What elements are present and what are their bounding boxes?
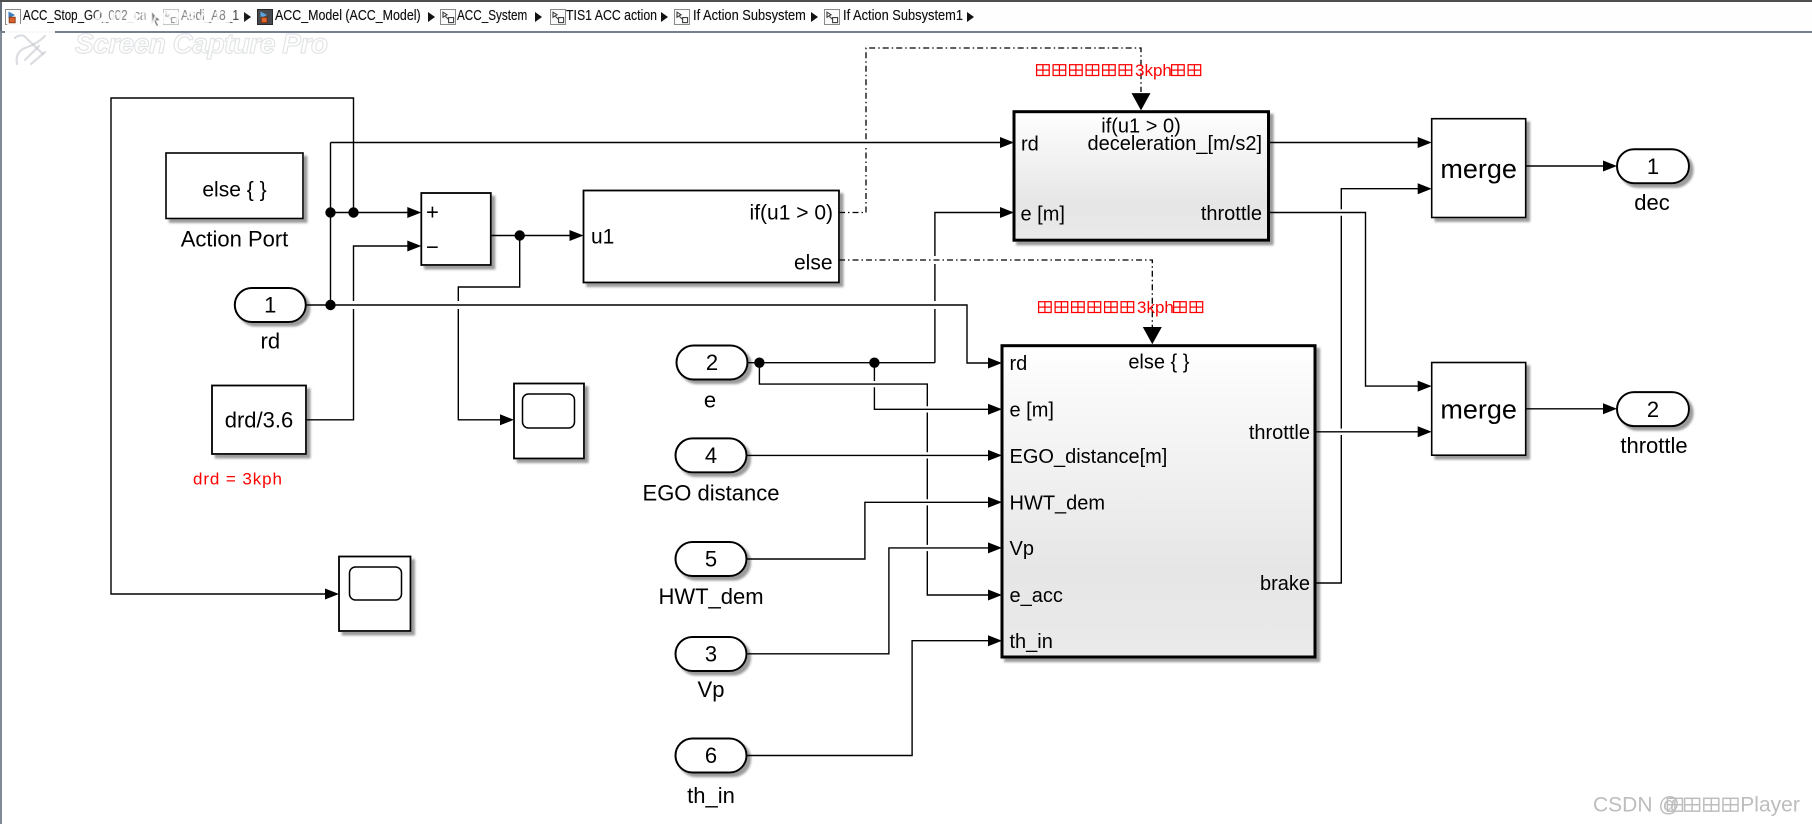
svg-text:drd/3.6: drd/3.6 [225, 408, 294, 433]
wire rd feedback loop to scope2 [111, 98, 354, 594]
svg-text:th_in: th_in [687, 783, 735, 808]
inport 6 th_in [676, 739, 747, 809]
svg-text:6: 6 [705, 743, 717, 768]
inport 5 HWT_dem [658, 542, 763, 609]
big arrowhead into block1 top [1132, 93, 1151, 110]
svg-text:CSDN @: CSDN @ [1593, 793, 1680, 816]
wire e from inport2 [748, 362, 935, 364]
svg-text:5: 5 [705, 547, 717, 572]
junction dots [325, 300, 335, 310]
dashdot else action line to block2 [839, 260, 1152, 327]
wire e branch to block2 e input [874, 363, 990, 410]
svg-text:EGO_distance[m]: EGO_distance[m] [1010, 446, 1168, 468]
svg-text:2: 2 [1647, 397, 1659, 422]
svg-text:brake: brake [1260, 573, 1310, 595]
svg-text:th_in: th_in [1010, 631, 1053, 653]
if block U1 [584, 191, 840, 283]
sum block [421, 193, 491, 265]
svg-text:rd: rd [1010, 353, 1028, 375]
svg-text:HWT_dem: HWT_dem [1010, 492, 1106, 514]
wire block2 brake output to merge1 lower input [1315, 189, 1419, 583]
svg-text:Player: Player [1740, 793, 1800, 816]
svg-text:e_acc: e_acc [1010, 585, 1063, 607]
svg-text:3kph: 3kph [1135, 61, 1172, 80]
svg-text:throttle: throttle [1249, 422, 1310, 444]
svg-text:1: 1 [1647, 154, 1659, 179]
csdn watermark bottom right [1593, 793, 1800, 816]
svg-text:−: − [426, 235, 439, 260]
svg-text:3: 3 [705, 642, 717, 667]
inport 4 EGO distance [643, 438, 780, 505]
gain block drd/3.6 [212, 386, 306, 455]
svg-text:Vp: Vp [1010, 538, 1034, 560]
scope block 1 [514, 384, 584, 459]
svg-text:3kph: 3kph [1137, 298, 1174, 317]
merge block M2 [1432, 363, 1526, 456]
svg-text:if(u1 > 0): if(u1 > 0) [750, 202, 833, 225]
red note cjk above block2 [1039, 298, 1203, 317]
svg-text:EGO distance: EGO distance [643, 480, 780, 505]
inport 2 e [677, 346, 748, 413]
svg-text:else { }: else { } [1128, 352, 1189, 374]
svg-text:throttle: throttle [1201, 203, 1262, 225]
svg-text:e [m]: e [m] [1021, 204, 1065, 226]
wire merge1 output to outport dec [1526, 165, 1605, 167]
svg-text:4: 4 [705, 443, 717, 468]
wire drd output to sum minus input [306, 246, 409, 420]
outport 1 dec [1617, 149, 1689, 215]
wire th_in to block2 [747, 641, 991, 756]
scope block 2 [339, 557, 411, 632]
svg-text:merge: merge [1440, 154, 1517, 184]
svg-text:merge: merge [1440, 394, 1517, 424]
inport 1 rd [235, 288, 306, 354]
window left border [0, 0, 2, 824]
svg-text:e: e [704, 388, 716, 413]
big arrowhead into block2 top [1143, 327, 1162, 344]
wire block2 throttle output to merge2 lower input [1315, 431, 1419, 433]
svg-text:Vp: Vp [698, 677, 725, 702]
wire rd to block1 rd input [331, 142, 1002, 144]
svg-text:HWT_dem: HWT_dem [658, 584, 763, 609]
svg-text:1: 1 [264, 293, 276, 318]
svg-text:rd: rd [1021, 134, 1039, 156]
wire sum output branch to scope1 [458, 236, 519, 420]
wire block1 throttle output to merge2 upper input [1269, 213, 1420, 387]
svg-text:deceleration_[m/s2]: deceleration_[m/s2] [1087, 133, 1262, 155]
svg-text:u1: u1 [591, 226, 614, 249]
wire block1 deceleration output to merge1 [1269, 142, 1420, 144]
wire e riser to block1 e input [935, 213, 1002, 363]
svg-text:rd: rd [261, 329, 281, 354]
wire sum output to u1 [491, 235, 571, 237]
svg-text:+: + [426, 200, 439, 225]
svg-text:else: else [794, 252, 833, 275]
else action subsystem block2 [1002, 346, 1315, 657]
wire rd to sum plus input [331, 212, 410, 214]
action port block else{} [166, 153, 303, 219]
wire rd riser x330.5 [330, 143, 332, 306]
wire e branch to e_acc [759, 363, 990, 595]
inport 3 Vp [676, 637, 747, 702]
wire HWT_dem to block2 [747, 502, 991, 559]
wire Vp to block2 [747, 548, 991, 654]
wire EGO distance to block2 [747, 454, 991, 456]
if action subsystem block1 [1014, 112, 1269, 241]
wire merge2 output to outport throttle [1526, 408, 1605, 410]
svg-text:else { }: else { } [202, 179, 266, 202]
red note cjk above block1 [1037, 61, 1201, 80]
svg-text:dec: dec [1634, 190, 1669, 215]
svg-text:e [m]: e [m] [1010, 400, 1054, 422]
svg-text:2: 2 [706, 350, 718, 375]
wire rd long run to block2 rd input [331, 305, 991, 363]
dashdot if(u1>0) action line to block1 [839, 48, 1141, 213]
svg-text:drd = 3kph: drd = 3kph [193, 470, 283, 489]
arrowheads into blocks [407, 207, 421, 218]
merge block M1 [1432, 119, 1526, 218]
wire rd from inport1 to junction [306, 304, 331, 306]
outport 2 throttle [1617, 392, 1689, 458]
svg-text:Action Port: Action Port [181, 227, 289, 252]
svg-text:throttle: throttle [1620, 433, 1687, 458]
